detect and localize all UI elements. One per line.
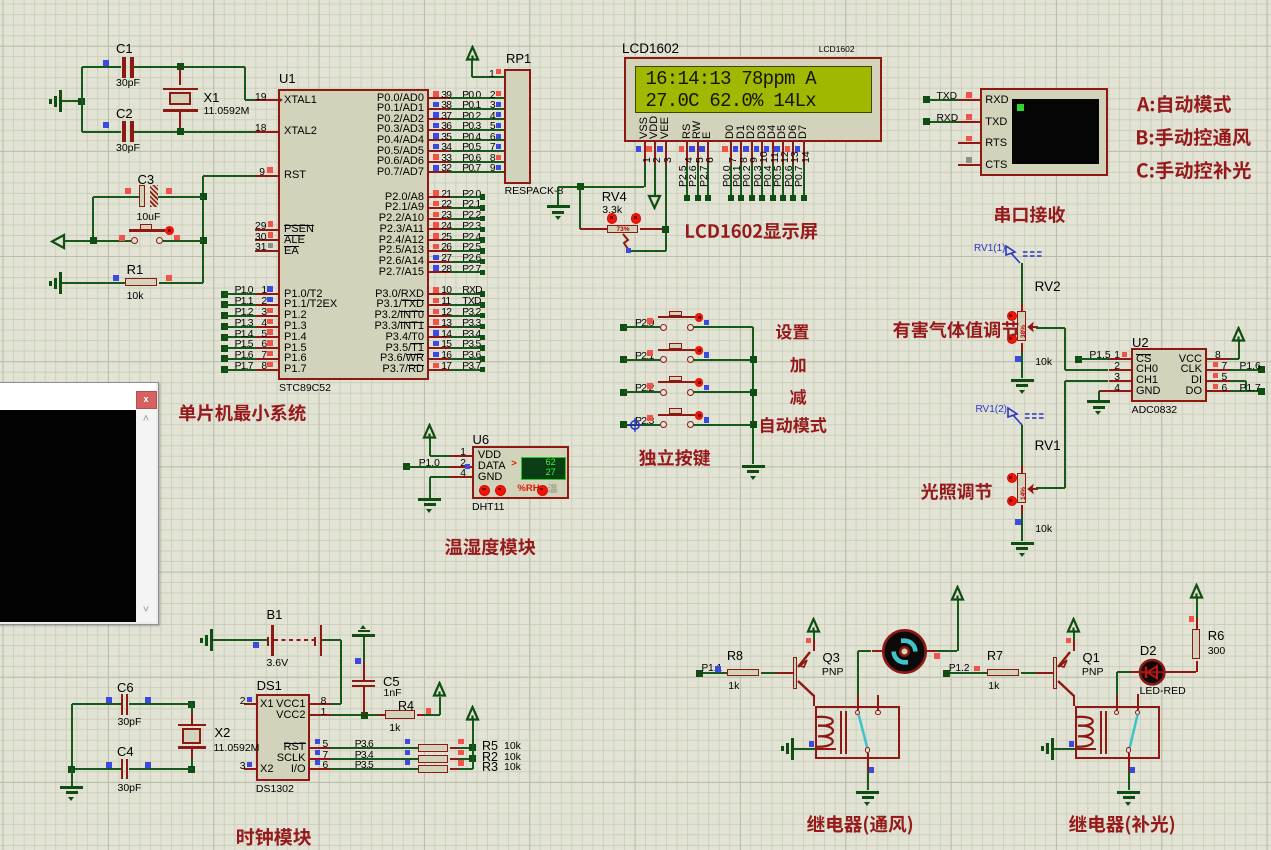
U2 pin 7 CLK / net P1.6 bbox=[1207, 369, 1230, 371]
LCD pin 7 D0 bbox=[725, 124, 737, 138]
U1 pin 5 net P1.4 wire and terminal bbox=[221, 334, 228, 341]
serial terminal body bbox=[980, 88, 1108, 176]
U1 pin name P0.1/AD1 bbox=[364, 103, 424, 115]
U2 pin name CH0 bbox=[1136, 364, 1158, 376]
U1 pin 18 XTAL2 stub bbox=[255, 131, 278, 133]
U1 pin name P2.5/A13 bbox=[364, 245, 424, 257]
U1 pin name P1.7 bbox=[284, 364, 307, 376]
U1 pin 37 net P0.2 wire to RP1 pin 4 bbox=[429, 118, 450, 120]
LCD pin 3 VEE bbox=[660, 116, 672, 138]
RV2 bottom lead bbox=[1021, 343, 1023, 352]
potentiometer RV1 bbox=[1021, 466, 1023, 473]
DS1 pin name X1 bbox=[260, 699, 273, 711]
button row net P2.2 terminal+wire bbox=[620, 389, 627, 396]
battery B1 3.6V bbox=[267, 608, 283, 622]
U1 pin name P0.0/AD0 bbox=[364, 93, 424, 105]
U1 pin name P0.2/AD2 bbox=[364, 114, 424, 126]
wire C6-C4 left vertical bbox=[71, 704, 73, 769]
label harmful gas adjust bbox=[893, 321, 1020, 340]
U1 pin name P0.6/AD6 bbox=[364, 156, 424, 168]
ground below C4 bbox=[60, 786, 83, 789]
U1 pin name P1.1/T2EX bbox=[284, 299, 337, 311]
U1 pin 33 net P0.6 wire to RP1 pin 8 bbox=[429, 161, 450, 163]
U1 pin 11 net TXD wire and terminal bbox=[429, 304, 450, 306]
wire RST net horizontal bbox=[203, 175, 255, 177]
wire LED left lead to relay bbox=[1117, 671, 1130, 673]
relay common to ground bbox=[1128, 753, 1130, 771]
U2 pin name CS bbox=[1136, 354, 1151, 366]
U1 pin name P1.6 bbox=[284, 353, 307, 365]
U1 pin name P2.2/A10 bbox=[364, 213, 424, 225]
DS1 pin name right bbox=[246, 742, 306, 754]
junction bus r4 bbox=[750, 421, 757, 428]
wire button to bus bbox=[693, 326, 753, 328]
wire probe to RV1 bbox=[1021, 425, 1023, 466]
resistor R7 1k bbox=[987, 669, 1019, 677]
relay coil bottom lead bbox=[816, 748, 836, 750]
U1 pin name P1.3 bbox=[284, 321, 307, 333]
U1 pin name P3.0 bbox=[364, 289, 424, 301]
push button 2 bbox=[660, 356, 667, 363]
U1 pin 25 net P2.4 wire and terminal bbox=[429, 239, 450, 241]
DS1 pin 8 VCC1 stub bbox=[310, 703, 331, 705]
U6 pin 4 GND bbox=[430, 476, 450, 478]
U1 pin ALE name bbox=[284, 235, 305, 247]
U1 pin name P2.3/A11 bbox=[364, 224, 424, 236]
U2 pin name CH1 bbox=[1136, 375, 1158, 387]
junction bus r2 bbox=[750, 356, 757, 363]
relay pole contact from motor bbox=[857, 695, 859, 710]
ground below RV1 bbox=[1011, 542, 1034, 545]
terminal net P1.2 bbox=[943, 670, 950, 677]
relay blade (cyan) bbox=[853, 713, 873, 753]
resistor R5 10k bbox=[418, 744, 449, 752]
LCD wire net P0.0 with terminal bbox=[730, 164, 732, 198]
U2 pin 8 VCC to power bbox=[1207, 358, 1230, 360]
label MCU minimum system bbox=[179, 404, 308, 424]
wire RP1 pin1 to power bbox=[471, 60, 473, 78]
wire button to bus bbox=[693, 391, 753, 393]
serial RTS stub bbox=[958, 142, 981, 144]
U1 pin 6 net P1.5 wire and terminal bbox=[221, 345, 228, 352]
voltage probe RV1(2) bbox=[976, 405, 1008, 416]
lcd LCD1602 body bbox=[624, 57, 882, 142]
DHT11 screen bbox=[521, 457, 566, 480]
label set bbox=[776, 324, 811, 342]
U1 pin name P0.7/AD7 bbox=[364, 167, 424, 179]
U1 pin 9 RST stub bbox=[255, 175, 278, 177]
crystal X2 bbox=[188, 701, 195, 708]
junction C3 right bbox=[200, 193, 207, 200]
push button 4 bbox=[660, 421, 667, 428]
sensor U6 DHT11 body bbox=[472, 446, 570, 500]
relay core bbox=[1100, 711, 1102, 754]
label clock module bbox=[237, 828, 313, 848]
U1 pin 1 net P1.0 wire and terminal bbox=[221, 291, 228, 298]
serial CTS stub bbox=[958, 164, 981, 166]
motor right lead to power bbox=[926, 650, 936, 652]
U1 pin 13 net P3.3 wire and terminal bbox=[429, 326, 450, 328]
label A: auto mode bbox=[1137, 95, 1233, 115]
U1 pin name P3.4 bbox=[364, 332, 424, 344]
button row net P2.3 terminal+wire bbox=[620, 421, 627, 428]
U1 pin EA name bbox=[284, 246, 299, 258]
RV1 bottom lead bbox=[1021, 505, 1023, 514]
U1 pin name P0.4/AD4 bbox=[364, 135, 424, 147]
U1 pin 12 net P3.2 wire and terminal bbox=[429, 315, 450, 317]
blue crosshair marker bbox=[628, 418, 642, 432]
DHT11 adjust buttons bbox=[479, 485, 490, 496]
crystal X1 bbox=[179, 69, 181, 85]
button row net P2.1 terminal+wire bbox=[620, 356, 627, 363]
capacitor C3 10uF bbox=[93, 196, 139, 198]
serial RXD stub + net TXD bbox=[958, 99, 981, 101]
U1 pin 26 net P2.5 wire and terminal bbox=[429, 250, 450, 252]
DHT11 %RH label bbox=[517, 484, 539, 494]
wire P1.2 to R7 bbox=[950, 672, 987, 674]
wire probe to RV2 bbox=[1021, 263, 1023, 304]
LCD wire net P0.1 with terminal bbox=[740, 164, 742, 198]
LCD wire net P0.6 with terminal bbox=[792, 164, 794, 198]
U2 pin 2 CH0 stub bbox=[1109, 369, 1132, 371]
wire button right bbox=[163, 240, 204, 242]
U1 pin name P3.2 bbox=[364, 310, 424, 322]
U1 pin name P1.4 bbox=[284, 332, 307, 344]
relay coil ground bbox=[791, 738, 794, 760]
relay coil box bbox=[1075, 706, 1160, 759]
LCD1602 part ref small bbox=[819, 45, 855, 54]
U1 pin 35 net P0.4 wire to RP1 pin 6 bbox=[429, 139, 450, 141]
U1 pin 17 net P3.7 wire and terminal bbox=[429, 369, 450, 371]
U1 pin 8 net P1.7 wire and terminal bbox=[221, 366, 228, 373]
wire C2 to XTAL2 bbox=[134, 131, 255, 133]
LCD pin 5 RW bbox=[692, 120, 704, 138]
wire motor left lead to relay bbox=[858, 650, 872, 652]
resistor R6 300 bbox=[1192, 629, 1200, 659]
rtc DS1 DS1302 body bbox=[256, 694, 310, 781]
U1 pin 22 net P2.1 wire and terminal bbox=[429, 207, 450, 209]
U6 pin 1 VDD bbox=[450, 455, 472, 457]
U1 pin name P3.7 bbox=[364, 364, 424, 376]
ground below VSS wire bbox=[557, 187, 559, 206]
LCD pin 8 D1 bbox=[736, 124, 748, 138]
wire C3 left down bbox=[92, 197, 94, 241]
button row net P2.0 terminal+wire bbox=[620, 324, 627, 331]
U2 pin name DO bbox=[1142, 386, 1202, 398]
wire vertical C1-C2 left bbox=[81, 67, 83, 132]
ground below DHT11 bbox=[418, 498, 441, 501]
junction R5 right bbox=[469, 744, 476, 751]
U1 pin 34 net P0.5 wire to RP1 pin 7 bbox=[429, 150, 450, 152]
U1 pin RST name bbox=[284, 170, 306, 182]
junction C3/button bbox=[90, 237, 97, 244]
serial pin name RXD bbox=[985, 95, 1008, 107]
terminal net P1.1 bbox=[696, 670, 703, 677]
junction R2 right bbox=[469, 755, 476, 762]
wire button left bbox=[63, 240, 132, 242]
wire battery to VCC1 bbox=[322, 639, 341, 641]
DHT11 cursor arrow bbox=[511, 459, 517, 469]
junction button right bbox=[200, 237, 207, 244]
wire RV4 left from junction bbox=[579, 187, 581, 230]
button actuator bbox=[165, 226, 174, 235]
U1 pin 27 net P2.6 wire and terminal bbox=[429, 261, 450, 263]
serial TXD stub + net RXD bbox=[958, 121, 981, 123]
label independent buttons bbox=[639, 449, 712, 468]
resistor R4 1k bbox=[378, 714, 385, 716]
LCD1602 title label bbox=[622, 42, 679, 57]
U1 pin name P3.6 bbox=[364, 353, 424, 365]
capacitor C4 30pF bbox=[72, 768, 121, 770]
ground below RV2 bbox=[1011, 379, 1034, 382]
potentiometer RV2 bbox=[1021, 304, 1023, 311]
transistor Q1 PNP bbox=[1053, 657, 1057, 689]
serial pin name TXD bbox=[985, 117, 1007, 129]
wire button to bus bbox=[693, 359, 753, 361]
wire resistors to power arrow bbox=[472, 720, 474, 769]
wire ground to C1/C2 vertical bbox=[62, 100, 82, 102]
U1 pin 14 net P3.4 wire and terminal bbox=[429, 336, 450, 338]
Q1 collector to relay bbox=[1073, 695, 1075, 706]
popup scrollbar bbox=[136, 410, 156, 622]
U1 pin PSEN name bbox=[284, 224, 314, 236]
serial terminal screen bbox=[1012, 99, 1099, 164]
LCD VEE wire down to RV4 bbox=[665, 164, 667, 229]
U1 pin 32 net P0.7 wire to RP1 pin 9 bbox=[429, 171, 450, 173]
label LCD1602 display (chinese) bbox=[686, 223, 819, 242]
U2 pin name DI bbox=[1142, 375, 1202, 387]
U1 pin name P2.6/A14 bbox=[364, 256, 424, 268]
U2 pin name GND bbox=[1136, 386, 1160, 398]
Q1 emitter to power bbox=[1073, 640, 1075, 651]
U1 pin 16 net P3.6 wire and terminal bbox=[429, 358, 450, 360]
U1 pin name P1.5 bbox=[284, 343, 307, 355]
U1 pin 39 net P0.0 wire to RP1 pin 2 bbox=[429, 97, 450, 99]
U1 pin 4 net P1.3 wire and terminal bbox=[221, 323, 228, 330]
LCD wire net P0.7 with terminal bbox=[803, 164, 805, 198]
U1 pin 31 EA stub bbox=[255, 250, 278, 252]
U1 pin 23 net P2.2 wire and terminal bbox=[429, 218, 450, 220]
LCD wire net P2.6 with terminal bbox=[697, 164, 699, 198]
lcd text line 2 bbox=[646, 91, 816, 112]
LCD pin 12 D5 bbox=[777, 124, 789, 138]
LCD pin 9 D2 bbox=[746, 124, 758, 138]
resistor pack RP1 RESPACK-8 body bbox=[504, 69, 531, 185]
RV4 wiper bbox=[618, 233, 632, 251]
U1 pin name P1.2 bbox=[284, 310, 307, 322]
mcu U1 STC89C52 body bbox=[278, 89, 429, 380]
serial pin name CTS bbox=[985, 160, 1007, 172]
U1 pin name P0.3/AD3 bbox=[364, 124, 424, 136]
resistor R8 1k bbox=[727, 669, 759, 677]
wire power to VDD bbox=[429, 437, 431, 456]
label auto mode bbox=[761, 417, 829, 435]
relay pole contact from LED bbox=[1116, 695, 1118, 710]
LCD wire net P0.2 with terminal bbox=[751, 164, 753, 198]
U6 pin 2 DATA / net P1.0 bbox=[403, 463, 410, 470]
adc U2 ADC0832 body bbox=[1131, 348, 1207, 402]
LCD pin 6 E bbox=[702, 131, 714, 138]
potentiometer RV4 3.3k bbox=[602, 190, 627, 204]
wire GND down to ground bbox=[429, 477, 431, 498]
wire RV1 wiper to U2 CH1 bbox=[1036, 487, 1065, 489]
junction RV4/VEE bbox=[662, 226, 669, 233]
LCD VSS wire to ground net bbox=[644, 164, 646, 187]
resistor R2 10k bbox=[418, 755, 449, 763]
LCD pin 1 VSS bbox=[639, 116, 651, 138]
U2 pin 3 CH1 stub bbox=[1109, 380, 1132, 382]
capacitor C2 bbox=[82, 131, 122, 133]
capacitor C5 1nF bbox=[360, 625, 366, 629]
junction C4 left bbox=[68, 766, 75, 773]
U1 pin 19 XTAL1 stub bbox=[255, 99, 278, 101]
resistor R1 10k bbox=[62, 282, 125, 284]
ground below U2 bbox=[1087, 400, 1110, 403]
label relay light bbox=[1069, 815, 1176, 837]
label C: manual light bbox=[1137, 161, 1253, 181]
LCD wire net P0.3 with terminal bbox=[761, 164, 763, 198]
resistor R3 10k bbox=[418, 765, 449, 773]
U2 pin 1 CS / net P1.5 bbox=[1075, 356, 1082, 363]
relay coil bbox=[815, 714, 841, 752]
ground (left of C1/C2) bbox=[59, 90, 62, 112]
LCD wire net P0.4 with terminal bbox=[772, 164, 774, 198]
U1 pin 38 net P0.1 wire to RP1 pin 3 bbox=[429, 108, 450, 110]
serial pin name RTS bbox=[985, 138, 1007, 150]
LCD pin 11 D4 bbox=[767, 124, 779, 138]
U1 pin 24 net P2.3 wire and terminal bbox=[429, 228, 450, 230]
LCD pin 10 D3 bbox=[757, 124, 769, 138]
U1 pin 29 PSEN stub bbox=[255, 229, 278, 231]
push button 3 bbox=[660, 389, 667, 396]
power arrow above RP1 bbox=[465, 45, 480, 62]
U2 pin name CLK bbox=[1142, 364, 1202, 376]
junction C5/VCC2 bbox=[361, 712, 368, 719]
ground (left of R1) bbox=[59, 272, 62, 294]
label relay fan bbox=[807, 815, 914, 837]
LCD pin 14 D7 bbox=[798, 124, 810, 138]
U2 pin 5 DI bbox=[1207, 380, 1230, 382]
DS1 pin 7 net P3.4 wire bbox=[310, 758, 331, 760]
U1 pin 36 net P0.3 wire to RP1 pin 5 bbox=[429, 129, 450, 131]
popup title bar bbox=[0, 383, 156, 411]
label B: manual fan bbox=[1137, 128, 1253, 148]
relay blade (cyan) bbox=[1124, 713, 1144, 753]
voltage probe RV1(1) bbox=[974, 244, 1006, 255]
U1 pin 7 net P1.6 wire and terminal bbox=[221, 355, 228, 362]
U1 pin name P2.7/A15 bbox=[364, 267, 424, 279]
relay coil ground bbox=[1051, 738, 1054, 760]
U1 pin XTAL2 name bbox=[284, 126, 317, 138]
motor (fan) bbox=[881, 628, 928, 675]
U1 pin name P3.3 bbox=[364, 321, 424, 333]
lcd text line 1 bbox=[646, 69, 816, 90]
DS1 pin name right bbox=[246, 753, 306, 765]
capacitor C1 bbox=[82, 66, 122, 68]
DS1 pin name right bbox=[246, 699, 306, 711]
U1 pin name P1.0/T2 bbox=[284, 289, 323, 301]
LCD pin 2 VDD bbox=[649, 115, 661, 138]
wire button to bus bbox=[693, 424, 753, 426]
U1 pin 2 net P1.1 wire and terminal bbox=[221, 301, 228, 308]
U1 pin name P2.4/A12 bbox=[364, 235, 424, 247]
Q3 emitter to power bbox=[813, 640, 815, 651]
wire RST net vertical bbox=[202, 176, 204, 284]
wire P1.1 to R8 bbox=[703, 672, 728, 674]
junction VSS/RV4 bbox=[577, 183, 584, 190]
label temperature humidity module bbox=[445, 538, 537, 557]
LCD wire net P2.5 with terminal bbox=[686, 164, 688, 198]
wire R7 to Q1 base bbox=[1021, 672, 1036, 674]
junction bus r3 bbox=[750, 389, 757, 396]
relay common to ground bbox=[867, 753, 869, 771]
U1 pin name P3.5 bbox=[364, 343, 424, 355]
U1 pin name P2.0/A8 bbox=[364, 192, 424, 204]
LCD VDD wire to power-down arrow bbox=[654, 164, 656, 196]
DHT11 grey char bbox=[548, 484, 559, 495]
wire RV4 wiper to VEE bbox=[631, 250, 666, 252]
wire corner down to XTAL1 bbox=[244, 67, 246, 100]
push button (reset) bbox=[131, 237, 138, 244]
LCD pin 4 RS bbox=[682, 123, 694, 138]
terminal arrow left (reset button) bbox=[50, 233, 66, 250]
label serial receive bbox=[995, 206, 1067, 225]
label light adjust bbox=[921, 483, 994, 502]
LCD wire net P2.7 with terminal bbox=[707, 164, 709, 198]
relay coil bbox=[1075, 714, 1101, 752]
wire RV2 wiper to U2 CH0 bbox=[1036, 327, 1065, 329]
DS1 pin 2 X1 bbox=[244, 703, 256, 705]
popup black client area bbox=[0, 410, 136, 622]
R4 to power arrow bbox=[424, 714, 440, 716]
U1 pin 28 net P2.7 wire and terminal bbox=[429, 271, 450, 273]
junction X1 bottom bbox=[177, 128, 184, 135]
R6 to power bbox=[1196, 618, 1198, 630]
ground below button bus bbox=[742, 465, 765, 468]
U1 pin name P2.1/A9 bbox=[364, 202, 424, 214]
popup close button bbox=[136, 391, 157, 409]
relay core bbox=[840, 711, 842, 754]
popup window frame bbox=[0, 382, 159, 626]
U1 pin 21 net P2.0 wire and terminal bbox=[429, 196, 450, 198]
relay coil box bbox=[815, 706, 900, 759]
U1 pin name P0.5/AD5 bbox=[364, 146, 424, 158]
led D2 LED-RED bbox=[1140, 644, 1157, 658]
relay coil bottom lead bbox=[1076, 748, 1096, 750]
wire R8 to Q3 base bbox=[761, 672, 776, 674]
U1 pin 3 net P1.2 wire and terminal bbox=[221, 312, 228, 319]
U1 pin 15 net P3.5 wire and terminal bbox=[429, 347, 450, 349]
button bus vertical wire bbox=[752, 327, 754, 464]
serial screen cursor bbox=[1017, 104, 1024, 111]
U2 pin 6 DO / net P1.7 bbox=[1207, 390, 1230, 392]
U1 pin 30 ALE stub bbox=[255, 239, 278, 241]
LCD wire net P0.5 with terminal bbox=[782, 164, 784, 198]
DS1 pin name X2 bbox=[260, 764, 273, 776]
DS1 pin 1 VCC2 wire bbox=[310, 714, 331, 716]
DS1 pin name right bbox=[246, 764, 306, 776]
U2 pin name VCC bbox=[1142, 354, 1202, 366]
power arrow above DHT11 bbox=[422, 423, 437, 440]
capacitor C6 30pF bbox=[72, 703, 121, 705]
DS1 pin 6 net P3.5 wire bbox=[310, 768, 331, 770]
relay NO contact bbox=[1137, 694, 1139, 710]
DS1 pin name right bbox=[246, 710, 306, 722]
label plus bbox=[790, 357, 807, 375]
U1 pin XTAL1 name bbox=[284, 95, 317, 107]
wire C1 to XTAL1 corner bbox=[134, 66, 245, 68]
U1 pin name P3.1 bbox=[364, 299, 424, 311]
